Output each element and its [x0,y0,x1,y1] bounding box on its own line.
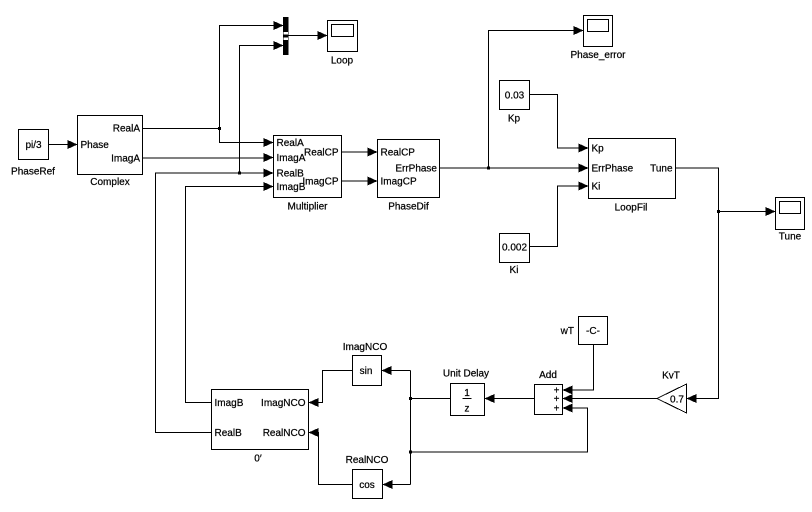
wire cos output to NCO.RealNCO [309,428,353,485]
svg-text:wT: wT [560,326,574,337]
wire to cos input [383,480,411,489]
svg-text:cos: cos [359,480,375,491]
wire ErrPhase branch to Phase_error scope [489,26,584,168]
svg-text:Loop: Loop [331,56,354,67]
scope Phase_error [570,16,626,62]
svg-text:Tune: Tune [779,232,802,243]
wire RealB branch to Mux input 2 [240,41,284,173]
svg-text:ImagCP: ImagCP [381,177,417,188]
svg-text:Kp: Kp [592,144,605,155]
svg-text:Phase_error: Phase_error [570,50,626,61]
svg-text:ImagB: ImagB [215,398,244,409]
wire KvT output to Add input 2 [563,394,658,403]
junction node RealB branch [238,172,241,175]
svg-text:0.03: 0.03 [505,91,525,102]
wire Ki to LoopFil.Ki [530,182,589,247]
svg-text:0.002: 0.002 [502,243,527,254]
svg-text:PhaseDif: PhaseDif [388,202,429,213]
svg-text:RealNCO: RealNCO [263,428,306,439]
subsystem LoopFil [589,139,676,214]
wire ErrPhase net: PhaseDif to LoopFil [440,164,589,173]
svg-text:Unit Delay: Unit Delay [443,369,489,380]
wire ImagB net: NCO.ImagB to Multiplier.ImagB [186,182,274,403]
svg-text:RealA: RealA [113,124,141,135]
svg-text:z: z [465,404,470,415]
wire Add feedback (input 3) from Unit Delay output net [411,404,588,453]
svg-text:+: + [554,404,560,415]
wire PhaseRef to Complex.Phase [49,140,78,149]
wire wT to Add input 1 [563,345,594,395]
junction node Tune branch [717,210,720,213]
subsystem Multiplier [274,136,342,213]
scope Loop [328,21,358,67]
wire RealA branch to Mux input 1 [220,21,284,129]
wire RealB net: NCO.RealB to Multiplier.RealB [156,169,274,433]
svg-text:Ki: Ki [510,265,519,276]
unit delay block 1/z (mirrored) [443,369,489,416]
svg-text:ImagA: ImagA [111,154,140,165]
svg-text:Add: Add [539,370,557,381]
wire Tune branch to Tune scope [719,207,776,216]
svg-text:-C-: -C- [586,326,600,337]
svg-text:ImagNCO: ImagNCO [261,398,306,409]
svg-text:sin: sin [360,366,373,377]
constant block Ki (0.002) [500,234,530,277]
subsystem U-Complex [78,116,143,189]
svg-text:RealB: RealB [215,428,243,439]
svg-text:KvT: KvT [662,371,680,382]
svg-text:0.7: 0.7 [670,395,684,406]
svg-text:RealA: RealA [277,138,305,149]
subsystem PhaseDif [378,140,440,213]
svg-text:Ki: Ki [592,182,601,193]
svg-text:ImagCP: ImagCP [302,177,338,188]
svg-text:Multiplier: Multiplier [287,202,328,213]
trig block sin (mirrored) [343,342,388,386]
wire to sin input [382,366,411,375]
svg-text:PhaseRef: PhaseRef [11,167,55,178]
svg-text:Phase: Phase [81,140,110,151]
wire Unit Delay output vertical distribution net [411,371,451,485]
junction node RealA branch [218,127,221,130]
constant block PhaseRef (pi/3) [11,130,55,178]
constant block Kp (0.03) [500,81,530,125]
svg-text:Complex: Complex [90,177,129,188]
svg-text:pi/3: pi/3 [25,140,42,151]
sum block Add (mirrored, +++ ) [535,370,563,415]
constant block wT (-C-) [560,317,608,345]
svg-text:RealNCO: RealNCO [346,455,389,466]
wire Tune net: LoopFil to KvT gain [676,168,719,403]
svg-text:0′: 0′ [254,454,262,465]
gain KvT (0.7, mirrored) [657,371,687,414]
wire sin output to NCO.ImagNCO [309,371,353,408]
wire ImagA: Complex.ImagA to Multiplier.ImagA [143,153,274,162]
junction node feedback branch [409,451,412,454]
svg-text:RealB: RealB [277,169,305,180]
svg-text:ImagNCO: ImagNCO [343,342,388,353]
svg-text:LoopFil: LoopFil [615,203,648,214]
mux block (vector concatenate) [283,17,289,55]
svg-text:ErrPhase: ErrPhase [592,164,634,175]
svg-text:ImagA: ImagA [277,153,306,164]
subsystem NCO (0') [212,390,309,465]
svg-text:Kp: Kp [508,114,521,125]
svg-text:RealCP: RealCP [381,148,416,159]
svg-text:Tune: Tune [650,164,673,175]
wire RealCP: Multiplier to PhaseDif [342,148,378,157]
trig block cos (mirrored) [346,455,389,499]
junction node ErrPhase branch [487,167,490,170]
wire Kp to LoopFil.Kp [530,95,589,153]
junction node Unit Delay out [409,397,412,400]
wire ImagCP: Multiplier to PhaseDif [342,177,378,186]
svg-text:RealCP: RealCP [304,148,339,159]
svg-text:ErrPhase: ErrPhase [395,164,437,175]
wire RealA net: Complex.RealA to Multiplier.RealA [143,129,274,148]
wire Mux output to Loop scope [289,31,328,40]
scope Tune [776,198,805,243]
svg-text:1: 1 [464,388,470,399]
svg-text:ImagB: ImagB [277,182,306,193]
wire Add output to Unit Delay input [485,394,535,403]
